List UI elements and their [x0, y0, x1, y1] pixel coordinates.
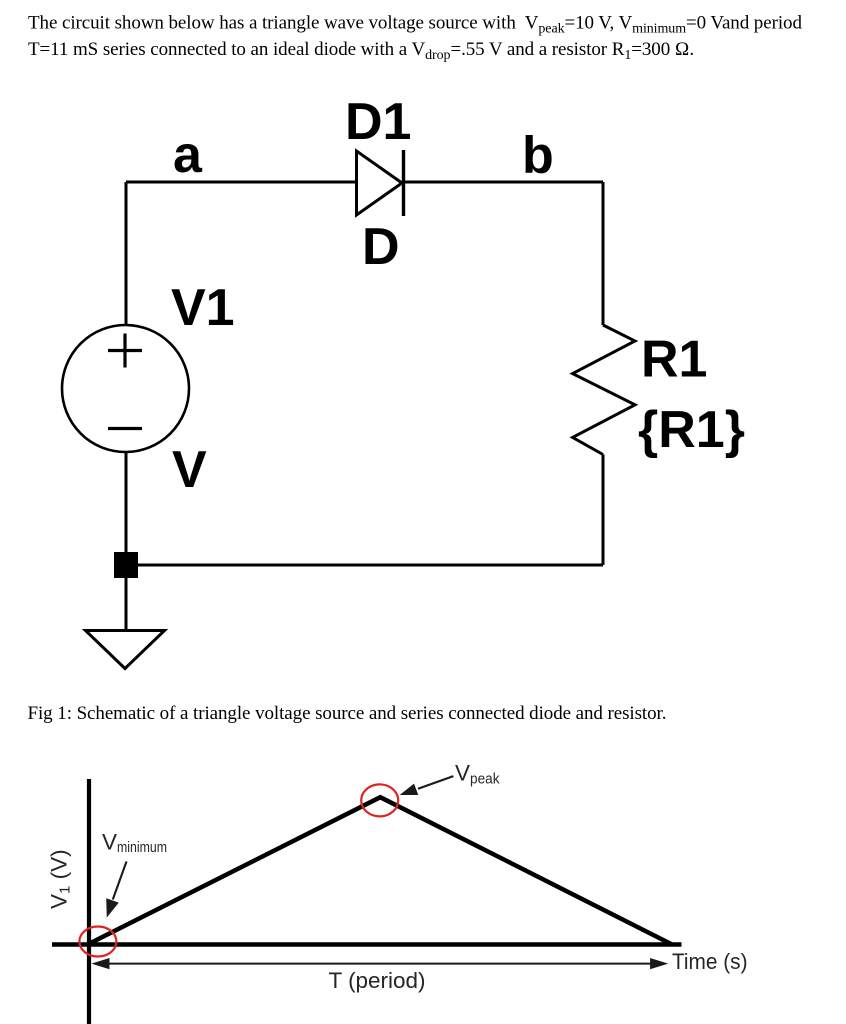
- voltage source minus sign: [108, 427, 142, 430]
- svg-text:The circuit shown below has a: The circuit shown below has a triangle w…: [28, 13, 802, 37]
- voltage source plus sign: [108, 334, 142, 368]
- svg-text:V: V: [172, 441, 207, 499]
- wire: bottom horizontal from junction to resistor bottom: [126, 564, 603, 567]
- svg-text:D: D: [362, 218, 400, 276]
- period arrow right arrowhead: [650, 958, 668, 969]
- svg-text:b: b: [522, 127, 554, 185]
- arrowhead of V minimum arrow: [106, 898, 119, 917]
- svg-text:a: a: [173, 126, 203, 184]
- svg-text:Time (s): Time (s): [672, 949, 748, 974]
- graph y-axis: [87, 779, 91, 1024]
- diode D1 cathode bar: [402, 150, 405, 216]
- svg-text:T=11 mS series connected to an: T=11 mS series connected to an ideal dio…: [28, 39, 694, 63]
- period arrow left arrowhead: [91, 958, 109, 969]
- svg-text:D1: D1: [345, 93, 411, 151]
- arrowhead of V peak arrow: [400, 784, 419, 795]
- wire: top-left segment from node a corner to diode anode: [126, 181, 356, 184]
- svg-text:V1: V1: [171, 279, 235, 337]
- svg-text:V1 (V): V1 (V): [47, 849, 74, 909]
- red circle marker at V peak: [361, 784, 398, 816]
- wire: top segment from diode cathode to node b corner: [403, 181, 603, 184]
- wire: right vertical from node b corner down to resistor top: [602, 182, 605, 325]
- voltage source V1 circle: [62, 325, 189, 452]
- arrow from V peak label to peak circle: [418, 776, 453, 789]
- wire: left vertical from node a corner down to source top: [125, 182, 128, 325]
- ground symbol triangle: [86, 631, 165, 669]
- svg-text:Fig 1: Schematic of a triangle: Fig 1: Schematic of a triangle voltage s…: [28, 703, 667, 724]
- svg-text:{R1}: {R1}: [638, 401, 745, 459]
- red circle marker at V minimum (origin): [79, 927, 116, 957]
- wire: left vertical from source bottom to junction: [125, 452, 128, 552]
- period double-headed arrow line: [105, 963, 655, 965]
- arrow from V minimum label to origin circle: [113, 862, 127, 900]
- svg-text:T (period): T (period): [329, 968, 426, 993]
- resistor R1 zigzag: [573, 325, 635, 455]
- wire: right vertical from resistor bottom to bottom corner: [602, 455, 605, 566]
- svg-text:R1: R1: [641, 331, 707, 389]
- junction node square (net 0): [114, 552, 138, 578]
- graph x-axis: [52, 942, 682, 947]
- wire: ground stem: [125, 578, 128, 629]
- diode D1 triangle: [357, 151, 403, 215]
- triangle wave trace: [91, 797, 672, 944]
